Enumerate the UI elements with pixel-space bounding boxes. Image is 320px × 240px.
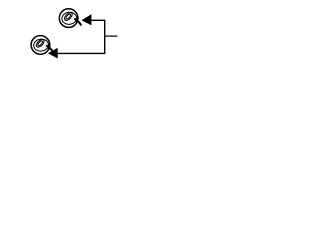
coil symbol (bottom) <box>31 36 53 55</box>
background <box>0 0 150 69</box>
wire: top horizontal segment from arrow to vertical bus <box>91 19 105 21</box>
arrowhead pointing at top coil <box>82 14 92 25</box>
coil symbol (top) <box>59 9 81 28</box>
wire: bottom horizontal segment from bus to bottom arrow <box>58 52 105 54</box>
wire: middle stub to the right <box>105 35 118 37</box>
arrowhead pointing at bottom coil <box>48 48 58 59</box>
wire: vertical bus segment <box>104 20 106 54</box>
